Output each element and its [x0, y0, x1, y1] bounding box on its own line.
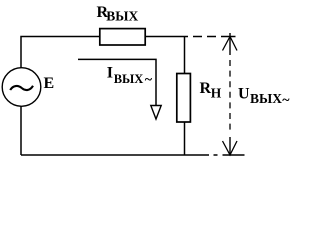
svg-text:ВЫХ: ВЫХ	[106, 9, 138, 24]
svg-text:E: E	[44, 75, 55, 92]
label R_n	[200, 80, 222, 101]
resistor R_vyh	[100, 29, 145, 45]
dashed line U_vyh	[229, 60, 231, 133]
svg-text:U: U	[238, 86, 250, 103]
voltage arrow U_vyh up	[223, 33, 238, 55]
svg-text:~: ~	[282, 93, 290, 108]
svg-text:R: R	[200, 80, 212, 97]
dashed wire bottom right	[214, 154, 245, 156]
svg-text:ВЫХ: ВЫХ	[114, 72, 144, 86]
wire node to R_n	[184, 37, 186, 74]
label U_vyh	[238, 86, 290, 108]
label R_vyh	[97, 4, 139, 24]
wire top from source to R_vyh	[21, 37, 99, 69]
wire bottom	[21, 154, 209, 156]
label I_vyh	[107, 65, 153, 88]
label E	[44, 75, 55, 92]
current arrow I_vyh	[78, 59, 161, 119]
svg-text:~: ~	[145, 73, 153, 88]
svg-text:ВЫХ: ВЫХ	[250, 91, 282, 106]
voltage arrow U_vyh down	[223, 137, 238, 155]
wire left bottom	[20, 107, 22, 156]
svg-text:I: I	[107, 65, 113, 82]
dashed wire top right	[193, 36, 236, 38]
wire from R_vyh to node	[146, 36, 188, 38]
resistor R_n	[177, 74, 191, 123]
svg-text:Н: Н	[211, 85, 222, 100]
voltage source E	[2, 68, 41, 107]
wire R_n to bottom	[184, 122, 186, 155]
